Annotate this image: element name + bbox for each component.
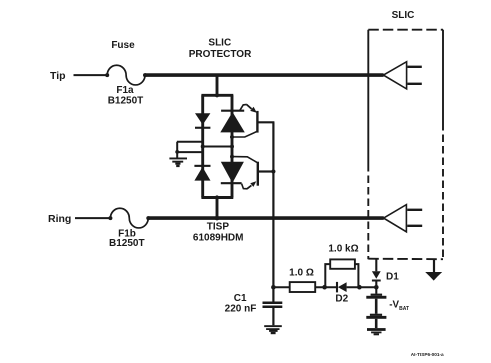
battery -VBAT <box>366 294 386 328</box>
svg-text:Tip: Tip <box>50 70 66 82</box>
wire lower gate to rail <box>259 170 274 172</box>
diode D2 (pointing left) <box>337 282 347 293</box>
junction dot D1 node <box>374 285 379 290</box>
wire protector bottom rail <box>201 196 233 199</box>
junction dot bottom tap <box>215 195 219 199</box>
ground (SLIC chassis, filled triangle) <box>425 272 442 281</box>
wire D2 to D1 node <box>347 286 377 288</box>
svg-text:1.0 Ω: 1.0 Ω <box>289 268 314 279</box>
svg-text:Fuse: Fuse <box>111 40 135 51</box>
thyristor protector U1 TISP61089HDM frame wires <box>201 75 233 218</box>
svg-text:C1: C1 <box>234 293 247 304</box>
svg-text:SLIC: SLIC <box>392 10 415 21</box>
ground (protector gate) <box>169 158 187 168</box>
wire tap from protector to Ring <box>216 198 219 219</box>
svg-text:61089HDM: 61089HDM <box>193 232 244 243</box>
junction dot D2/R2 node <box>357 285 362 290</box>
junction dot top tap <box>215 93 219 97</box>
wire upper gate to rail <box>258 121 274 123</box>
ground (battery) <box>367 328 386 335</box>
svg-text:220 nF: 220 nF <box>225 304 257 315</box>
svg-text:D1: D1 <box>386 272 399 283</box>
junction dot on Ring line <box>215 216 220 221</box>
junction dot gate rail <box>271 169 275 173</box>
junction dot C1 node <box>271 285 276 290</box>
op-amp buffer upper (tip amplifier) <box>383 62 421 89</box>
svg-text:TISP: TISP <box>207 222 230 233</box>
junction dot R1/D2 node <box>322 285 327 290</box>
svg-text:B1250T: B1250T <box>108 95 144 106</box>
wire gate rail vertical <box>272 122 274 287</box>
svg-text:B1250T: B1250T <box>109 238 145 249</box>
wire gate ground vertical <box>176 142 178 158</box>
fuse F1a <box>105 65 147 85</box>
svg-text:PROTECTOR: PROTECTOR <box>189 49 252 60</box>
wire protector right column <box>231 95 234 197</box>
SLIC box <box>368 30 443 260</box>
wire C1 node to R1 <box>273 286 290 288</box>
fuse F1b <box>108 208 150 228</box>
wire protector left column <box>201 95 204 197</box>
wire SLIC ground stem <box>433 259 435 272</box>
svg-text:F1a: F1a <box>116 85 134 96</box>
wire Ring thick line to SLIC <box>148 216 383 220</box>
junction dot right column lower <box>230 155 234 159</box>
diode D-bottom-left (pointing up) <box>194 165 210 181</box>
capacitor C1 <box>263 287 283 325</box>
junction dot mid link right <box>230 145 234 149</box>
resistor R 1.0 ohm <box>290 282 316 292</box>
wire gate mid link left-right column <box>203 146 232 148</box>
wire gate upper branch to ground <box>177 141 203 143</box>
diode D1 (pointing down) <box>372 271 381 281</box>
svg-text:SLIC: SLIC <box>208 37 231 48</box>
svg-text:D2: D2 <box>335 294 348 305</box>
wire protector top rail <box>201 94 233 97</box>
resistor R 1.0 kohm parallel branch <box>325 264 358 287</box>
svg-text:Ring: Ring <box>48 213 71 225</box>
wire Tip lead-in <box>74 74 108 76</box>
svg-text:1.0 kΩ: 1.0 kΩ <box>328 244 358 255</box>
wire Ring lead-in <box>75 217 110 219</box>
junction dot on ground vertical <box>175 150 179 154</box>
ground (C1) <box>264 325 282 334</box>
wire tap from Tip into protector <box>216 75 219 95</box>
svg-text:AI-TISP6-001-a: AI-TISP6-001-a <box>411 352 444 357</box>
junction dot mid link left <box>201 145 205 149</box>
wire gate lower branch to ground <box>177 151 203 153</box>
diode D-top-left (pointing down) <box>195 113 210 129</box>
junction dot right column upper <box>230 135 234 139</box>
wire R1 to D2 node <box>315 286 337 288</box>
op-amp buffer lower (ring amplifier) <box>384 205 423 232</box>
wire Tip thick line to SLIC <box>145 73 384 77</box>
wire D1 to node <box>375 282 377 294</box>
svg-text:-VBAT: -VBAT <box>389 300 409 312</box>
thyristor lower (anode-down SCR) <box>221 157 258 189</box>
thyristor upper (anode-up SCR) <box>220 104 257 137</box>
wire D1 stem from SLIC box <box>375 259 377 271</box>
